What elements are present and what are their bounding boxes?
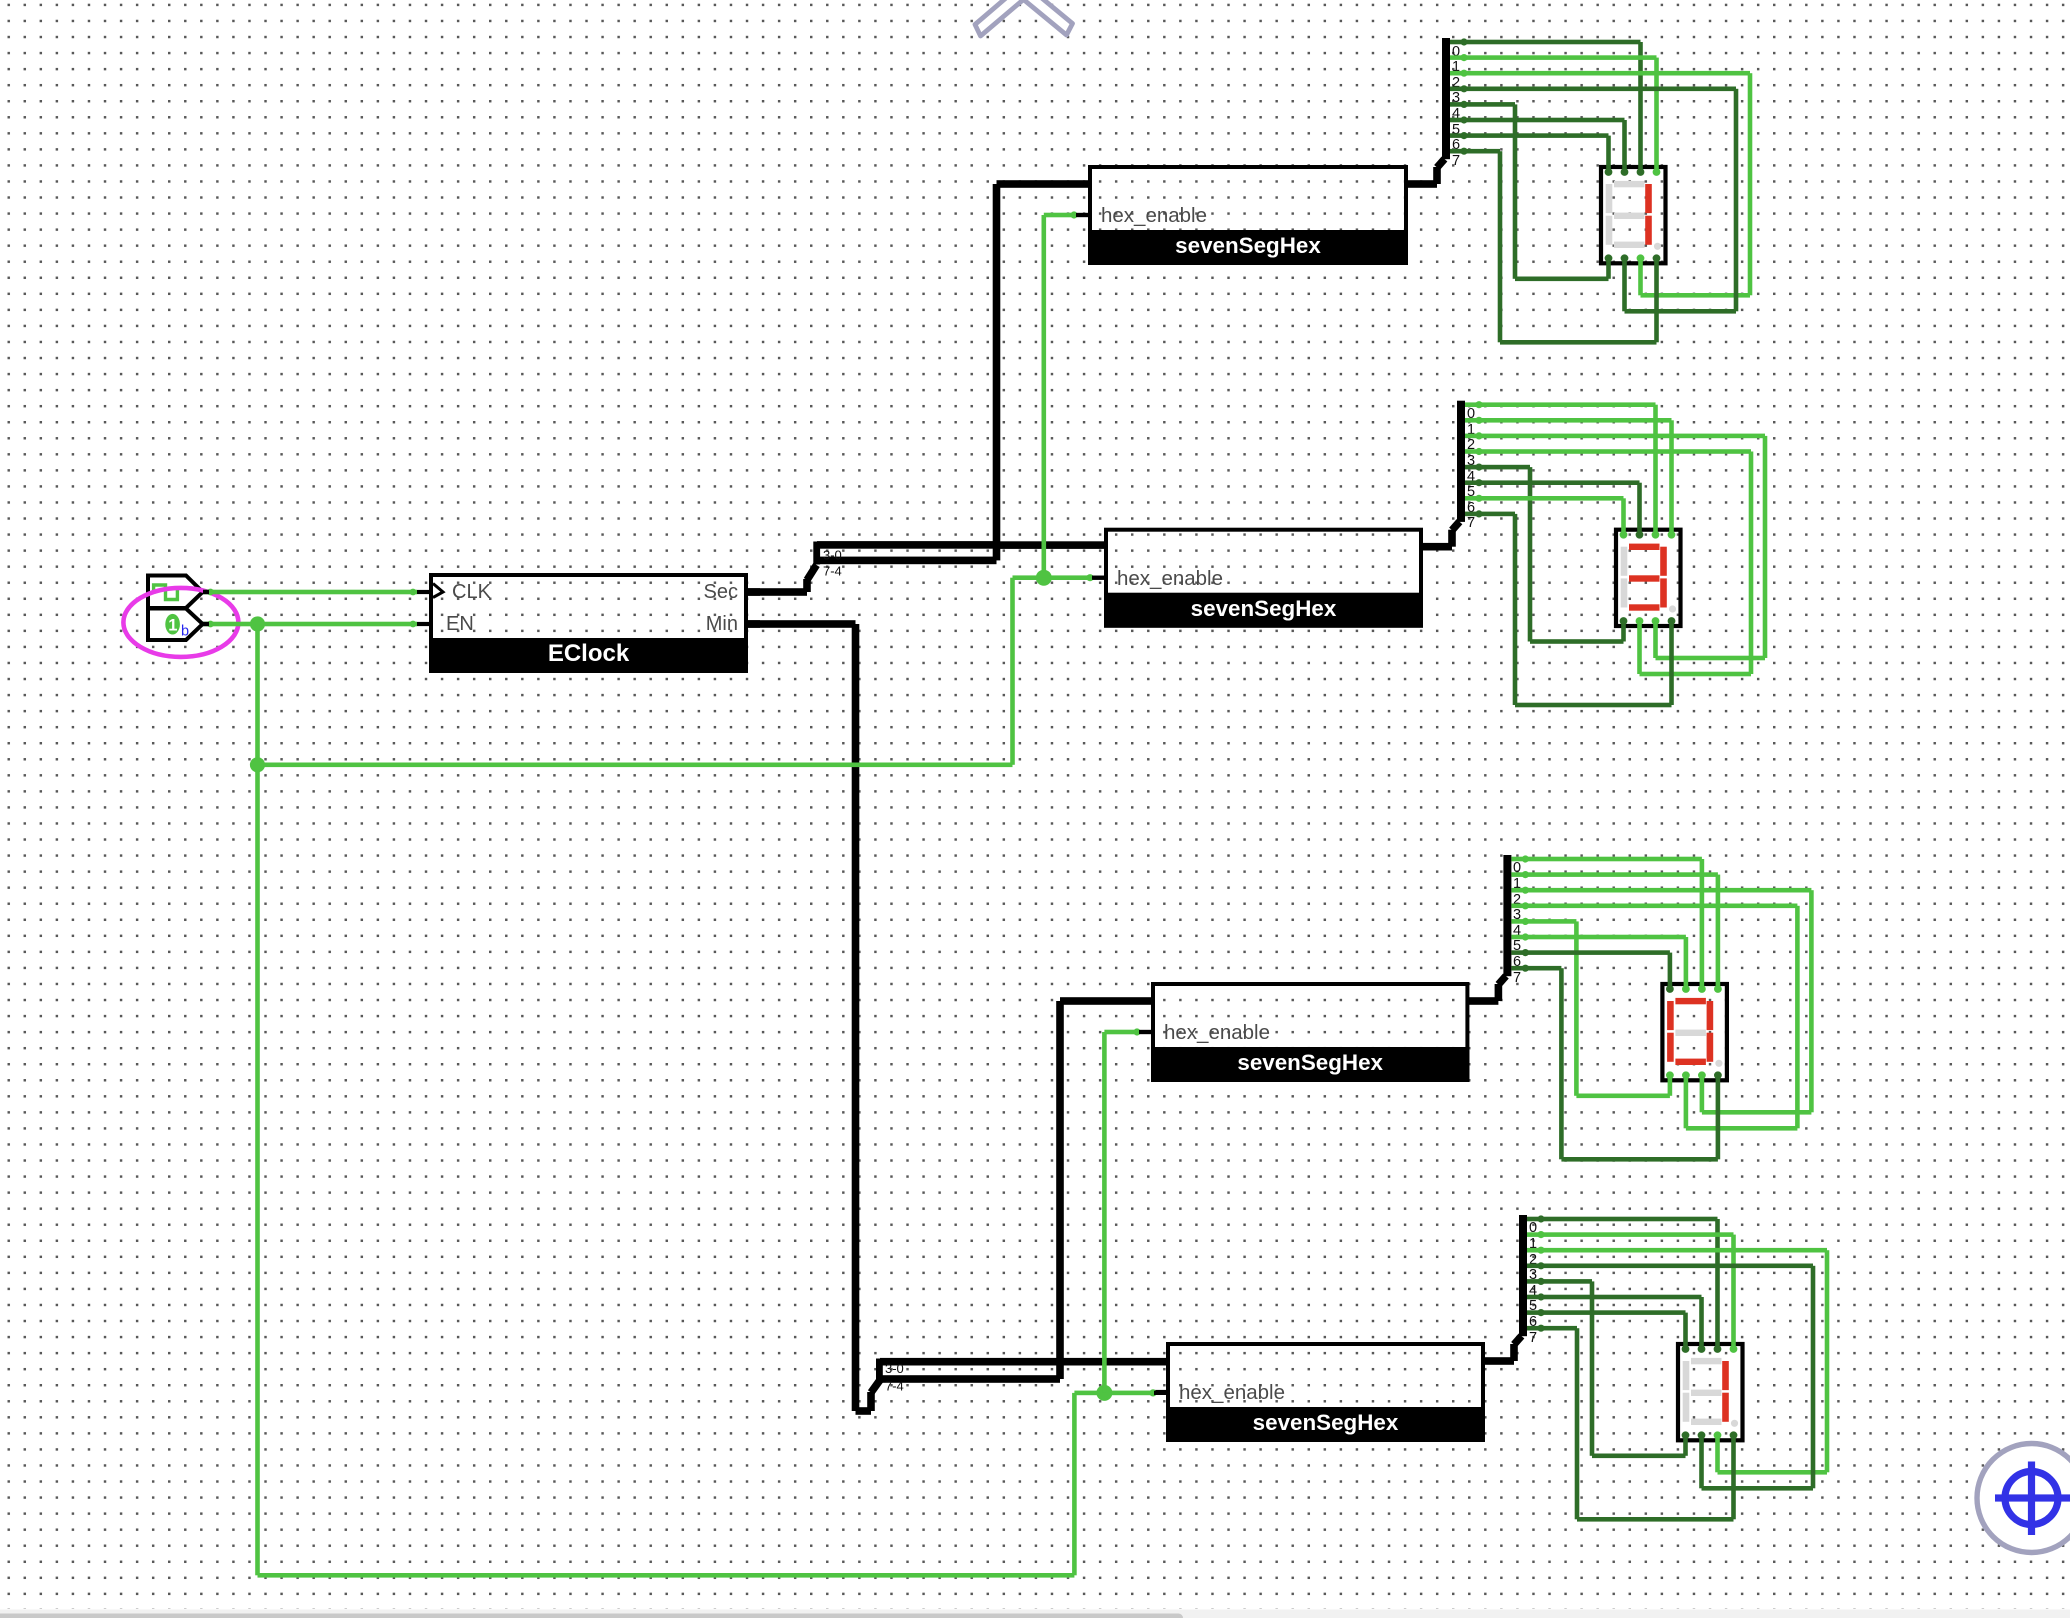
wire U4 bit 4 — [1527, 1278, 1688, 1458]
label U3 bit 5 — [1513, 938, 1521, 954]
splitter bar U4 — [1519, 1215, 1527, 1336]
wire U2 bit 2 — [1465, 432, 1767, 660]
display U2 segment A — [1629, 544, 1660, 550]
label U2 bit 5 — [1467, 484, 1475, 500]
label U1 bit 7 — [1452, 153, 1460, 169]
wire U3 bit 2 — [1511, 887, 1813, 1115]
bus U2 output to splitter — [1421, 522, 1460, 551]
label U4 bit 1 — [1529, 1236, 1537, 1252]
wire U4 bit 1 — [1527, 1231, 1736, 1349]
splitter bar U3 — [1503, 855, 1511, 976]
display U2 pin dots — [1620, 531, 1676, 625]
wire U2 bit 4 — [1465, 464, 1626, 644]
display U4 segment C — [1722, 1393, 1729, 1422]
wire U3 bit 1 — [1511, 871, 1720, 989]
svg-text:hex_enable: hex_enable — [1179, 1381, 1285, 1404]
U1 pin hex_enable — [1076, 204, 1207, 227]
label U4 bit 3 — [1529, 1267, 1537, 1283]
crosshair tool icon — [1977, 1444, 2070, 1553]
label U4 bit 5 — [1529, 1298, 1537, 1314]
op-block sevenSegHex U1 — [1088, 167, 1408, 265]
display U4 segment G — [1691, 1390, 1722, 1396]
display U2 segment F — [1621, 547, 1628, 576]
display U3 segment A — [1675, 998, 1706, 1004]
input connector CLK (clock source) — [148, 576, 203, 609]
display U4 segment D — [1691, 1419, 1722, 1425]
label U4 bit 4 — [1529, 1283, 1537, 1299]
wire U2 bit 0 — [1465, 401, 1658, 535]
display U3 segment F — [1667, 1001, 1674, 1030]
bus Min from EClock — [746, 620, 880, 1415]
U4 pin hex_enable — [1154, 1381, 1285, 1404]
label U2 bit 3 — [1467, 453, 1475, 469]
seven segment display DS3 — [1662, 984, 1727, 1080]
wire U1 bit 3 — [1450, 85, 1738, 313]
display U4 segment A — [1691, 1358, 1722, 1364]
display U3 segment C — [1707, 1033, 1714, 1062]
label U3 bit 4 — [1513, 923, 1521, 939]
label U1 bit 3 — [1452, 90, 1460, 106]
splitter bar U2 — [1457, 401, 1465, 522]
label 7-4 (lower) — [885, 1379, 904, 1394]
wire hex_enable to U1 — [1042, 211, 1091, 577]
wire EN net: bottom run to lower pair — [258, 1389, 1169, 1577]
svg-text:sevenSegHex: sevenSegHex — [1175, 233, 1321, 258]
label U2 bit 1 — [1467, 422, 1475, 438]
bus SP2 out 7-4 to sevenSegHex U4 — [880, 1358, 1168, 1383]
svg-text:EN: EN — [446, 613, 474, 635]
wire U3 bit 0 — [1511, 855, 1704, 989]
label U2 bit 2 — [1467, 437, 1475, 453]
wire U4 bit 2 — [1527, 1247, 1829, 1475]
label U2 bit 6 — [1467, 500, 1475, 516]
bus SP1 out 3-0 to sevenSegHex U1 — [817, 180, 1090, 548]
display U2 segment D — [1629, 604, 1660, 610]
label 7-4 — [823, 564, 842, 579]
label U2 bit 7 — [1467, 515, 1475, 531]
wire U3 bit 6 — [1511, 949, 1672, 989]
seven segment display DS1 — [1601, 167, 1666, 263]
display U4 segment B — [1722, 1361, 1729, 1390]
junction hex_enable U1/U2 at (1044,578) — [1036, 570, 1052, 586]
junction hex_enable U3/U4 at (1104,1393) — [1096, 1385, 1112, 1401]
display U4 segment F — [1683, 1361, 1690, 1390]
display U1 segment C — [1645, 216, 1652, 245]
svg-text:3-0: 3-0 — [823, 548, 842, 563]
wire U4 bit 6 — [1527, 1309, 1688, 1349]
U3 pin hex_enable — [1139, 1021, 1270, 1044]
EClock pin Sec — [704, 581, 760, 603]
display U3 segment E — [1667, 1033, 1674, 1062]
wire EN net: main vertical from junction down — [255, 624, 260, 1575]
EClock pin Min — [706, 613, 760, 635]
wire U2 bit 3 — [1465, 448, 1753, 676]
junction EN net at (257,623) — [250, 616, 265, 631]
svg-text:hex_enable: hex_enable — [1117, 567, 1223, 590]
wire U2 bit 1 — [1465, 417, 1674, 535]
svg-text:7: 7 — [1513, 970, 1521, 986]
display U2 segment G — [1629, 575, 1660, 581]
label U1 bit 5 — [1452, 122, 1460, 138]
label U3 bit 3 — [1513, 907, 1521, 923]
label U2 bit 0 — [1467, 406, 1475, 422]
wire U3 bit 5 — [1511, 933, 1688, 989]
label U1 bit 1 — [1452, 59, 1460, 75]
wire U3 bit 7 — [1511, 965, 1720, 1162]
wire U4 bit 3 — [1527, 1262, 1815, 1490]
label U3 bit 2 — [1513, 892, 1521, 908]
op-block sevenSegHex U4 — [1166, 1344, 1485, 1442]
label U4 bit 6 — [1529, 1314, 1537, 1330]
label U1 bit 4 — [1452, 106, 1460, 122]
display U1 segment B — [1645, 184, 1652, 213]
wire U1 bit 1 — [1450, 54, 1659, 172]
op-block sevenSegHex U3 — [1151, 984, 1469, 1082]
svg-text:Min: Min — [706, 613, 738, 635]
junction EN net at (257,765) — [250, 757, 265, 772]
display U2 segment B — [1660, 547, 1667, 576]
horizontal scrollbar — [0, 1610, 2070, 1618]
wire U3 bit 3 — [1511, 902, 1799, 1130]
label U1 bit 0 — [1452, 44, 1460, 60]
display U1 segment E — [1606, 216, 1613, 245]
bus SP1 out 7-4 to sevenSegHex U2 — [817, 541, 1106, 564]
svg-text:CLK: CLK — [452, 581, 492, 603]
display U1 pin dots — [1605, 168, 1661, 262]
wire U2 bit 7 — [1465, 510, 1674, 707]
display U4 pin dots — [1682, 1345, 1738, 1439]
svg-text:3-0: 3-0 — [885, 1361, 904, 1376]
chevron icon (selection marker) — [975, 0, 1073, 36]
svg-text:hex_enable: hex_enable — [1101, 204, 1207, 227]
wire U1 bit 5 — [1450, 116, 1627, 172]
svg-text:7: 7 — [1529, 1330, 1537, 1346]
svg-text:sevenSegHex: sevenSegHex — [1237, 1050, 1383, 1075]
display U2 segment C — [1660, 578, 1667, 607]
seven segment display DS2 — [1616, 530, 1681, 626]
display U3 segment DP — [1715, 1060, 1722, 1067]
wire U1 bit 6 — [1450, 132, 1611, 172]
display U1 segment A — [1614, 181, 1645, 187]
wire U1 bit 4 — [1450, 101, 1611, 281]
svg-text:hex_enable: hex_enable — [1164, 1021, 1270, 1044]
display U1 segment D — [1614, 242, 1645, 248]
display U2 segment DP — [1669, 605, 1676, 612]
display U2 segment E — [1621, 578, 1628, 607]
wire hex_enable to U3 — [1102, 1028, 1153, 1393]
wire U4 bit 0 — [1527, 1215, 1720, 1349]
display U1 segment G — [1614, 213, 1645, 219]
wire EN net: branch to upper sevenSegHex pair — [258, 574, 1107, 767]
label U2 bit 4 — [1467, 469, 1475, 485]
display U1 segment F — [1606, 184, 1613, 213]
input connector EN (constant 1) — [148, 609, 203, 641]
label U3 bit 0 — [1513, 860, 1521, 876]
wire EN source to EClock.EN — [203, 621, 417, 628]
wire U1 bit 2 — [1450, 70, 1752, 298]
wire U1 bit 0 — [1450, 38, 1643, 172]
display U3 segment G — [1675, 1030, 1706, 1036]
display U1 segment DP — [1654, 243, 1661, 250]
label U1 bit 6 — [1452, 137, 1460, 153]
svg-text:Sec: Sec — [704, 581, 738, 603]
display U3 segment B — [1707, 1001, 1714, 1030]
label U4 bit 7 — [1529, 1330, 1537, 1346]
bus U3 output to splitter — [1467, 976, 1506, 1005]
selection ellipse (magenta) — [123, 588, 238, 657]
wire U2 bit 6 — [1465, 495, 1626, 535]
splitter SP1 (Sec 8-bit to nibbles) — [813, 542, 820, 565]
svg-text:b: b — [181, 624, 189, 640]
label U4 bit 0 — [1529, 1220, 1537, 1236]
svg-text:EClock: EClock — [548, 640, 630, 667]
bus U1 output to splitter — [1406, 159, 1445, 188]
svg-text:7: 7 — [1452, 153, 1460, 169]
display U4 segment DP — [1731, 1420, 1738, 1427]
label U4 bit 2 — [1529, 1252, 1537, 1268]
svg-text:sevenSegHex: sevenSegHex — [1191, 596, 1337, 621]
EClock pin CLK — [417, 581, 492, 603]
wire U3 bit 4 — [1511, 918, 1672, 1098]
bus Sec from EClock — [746, 565, 817, 596]
label 3-0 — [823, 548, 842, 563]
label U3 bit 6 — [1513, 954, 1521, 970]
label 3-0 (lower) — [885, 1361, 904, 1376]
op-block EClock — [429, 575, 748, 673]
display U4 segment E — [1683, 1393, 1690, 1422]
wire CLK source to EClock.CLK — [203, 589, 417, 596]
splitter SP2 (Min 8-bit to nibbles) — [876, 1359, 883, 1383]
svg-text:sevenSegHex: sevenSegHex — [1253, 1410, 1399, 1435]
U2 pin hex_enable — [1092, 567, 1223, 590]
svg-text:7: 7 — [1467, 515, 1475, 531]
display U3 pin dots — [1666, 985, 1722, 1079]
wire U4 bit 7 — [1527, 1325, 1736, 1522]
op-block sevenSegHex U2 — [1104, 530, 1423, 628]
wire U4 bit 5 — [1527, 1293, 1704, 1349]
bus U4 output to splitter — [1483, 1336, 1522, 1365]
seven segment display DS4 — [1678, 1344, 1743, 1440]
svg-text:7-4: 7-4 — [885, 1379, 904, 1394]
bus SP2 out 3-0 to sevenSegHex U3 — [880, 997, 1153, 1365]
wire U2 bit 5 — [1465, 479, 1642, 535]
label U1 bit 2 — [1452, 75, 1460, 91]
svg-text:7-4: 7-4 — [823, 564, 842, 579]
label U3 bit 7 — [1513, 970, 1521, 986]
label U3 bit 1 — [1513, 876, 1521, 892]
svg-text:1: 1 — [168, 617, 177, 635]
wire U1 bit 7 — [1450, 148, 1659, 345]
EClock pin EN — [417, 613, 474, 635]
splitter bar U1 — [1442, 38, 1450, 159]
display U3 segment D — [1675, 1059, 1706, 1065]
